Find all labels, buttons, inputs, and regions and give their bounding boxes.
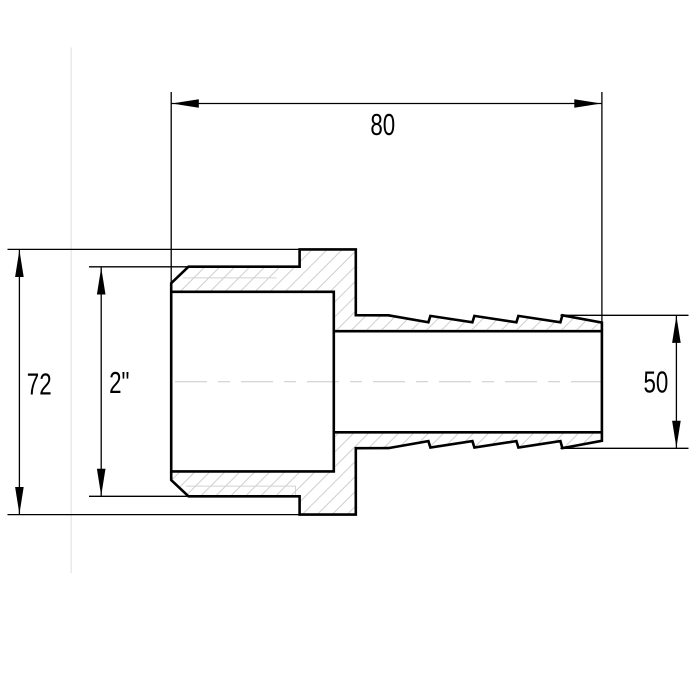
stem bore lower wall <box>334 431 602 434</box>
hatching top band <box>0 122 700 642</box>
arrowhead 72 down <box>15 487 24 514</box>
svg-text:2": 2" <box>109 365 129 399</box>
extension line 72 top <box>8 248 300 250</box>
arrowhead 80 right <box>574 99 601 108</box>
arrowhead 72 up <box>15 250 24 277</box>
dimension line 72 <box>18 249 20 514</box>
threaded bore cavity <box>171 292 334 472</box>
extension line 2in bottom <box>89 495 187 497</box>
arrowhead 50 down <box>672 421 681 448</box>
hatching bottom band <box>0 122 700 642</box>
construction line (light vertical) <box>70 48 72 574</box>
centerline (dash-dot axis) <box>175 381 614 383</box>
stem bore upper wall <box>334 330 602 333</box>
arrowhead 50 up <box>672 316 681 343</box>
extension line 2in top <box>89 266 190 268</box>
arrowhead 80 left <box>172 99 199 108</box>
dimension line 50 <box>675 315 677 448</box>
dimension line 80 <box>171 103 602 105</box>
fitting outer profile (hex, collar, barbed stem) <box>171 249 602 514</box>
extension line 50 top <box>560 314 688 316</box>
svg-text:50: 50 <box>643 365 668 399</box>
svg-text:80: 80 <box>370 108 395 142</box>
svg-text:72: 72 <box>27 367 52 401</box>
extension line 80 right <box>601 92 603 323</box>
extension line 72 bottom <box>8 514 300 516</box>
extension line 50 bottom <box>560 447 688 449</box>
thread line top <box>183 277 277 279</box>
arrowhead 2in down <box>97 469 106 496</box>
extension line 80 left <box>170 92 172 283</box>
arrowhead 2in up <box>97 268 106 295</box>
dimension line 2in <box>100 267 102 496</box>
thread line bottom <box>186 486 296 496</box>
